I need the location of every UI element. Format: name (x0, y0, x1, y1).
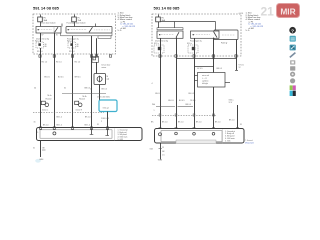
svg-text:G34: G34 (150, 148, 153, 150)
coil box 4 (187, 43, 198, 53)
svg-text:21: 21 (261, 4, 275, 18)
svg-text:GN 0.5: GN 0.5 (44, 77, 50, 79)
svg-text:MIR: MIR (280, 7, 295, 17)
help icon (289, 27, 296, 34)
svg-text:M 4a: M 4a (48, 95, 52, 97)
relay box E (214, 30, 238, 40)
wire labels mid (34, 62, 90, 90)
svg-text:?: ? (291, 28, 294, 34)
svg-text:BK 0.5: BK 0.5 (102, 88, 107, 90)
svg-text:C 701: C 701 (239, 13, 244, 15)
svg-text:BK 1.0: BK 1.0 (57, 117, 62, 119)
dashed separation line (33, 112, 104, 114)
svg-text:mirror L: mirror L (42, 109, 48, 111)
svg-text:31: 31 (97, 124, 99, 126)
pencil icon (290, 53, 296, 58)
color icon green/magenta (290, 85, 293, 90)
h link lines (177, 59, 239, 71)
svg-text:M 4b: M 4b (83, 96, 87, 98)
teal highlighted box (99, 100, 117, 112)
svg-text:BK 1.0: BK 1.0 (178, 122, 183, 124)
fuse F3 (156, 15, 161, 28)
legend text block (246, 13, 264, 33)
svg-text:591 14 08 085: 591 14 08 085 (154, 6, 181, 11)
svg-text:1: 1 (90, 88, 91, 90)
ground strip (37, 128, 143, 142)
svg-text:BN 0.5: BN 0.5 (186, 104, 192, 106)
fuse F2 (72, 15, 77, 27)
strip entry pins (39, 127, 108, 129)
svg-text:BN 0.5: BN 0.5 (217, 68, 223, 70)
relay box A (36, 27, 61, 34)
mirror motor box (94, 74, 106, 85)
svg-text:5. G35: 5. G35 (225, 140, 230, 142)
gray icon 2 (290, 66, 295, 70)
svg-text:BK 1.0: BK 1.0 (57, 125, 62, 127)
svg-text:WH 0.5: WH 0.5 (75, 77, 81, 79)
svg-text:BU 0.5: BU 0.5 (58, 77, 64, 79)
svg-text:4: 4 (152, 83, 153, 85)
svg-text:5. G: 5. G (118, 30, 122, 32)
heated mirror symbol 1 (41, 95, 51, 112)
dashed panel border (152, 14, 241, 56)
svg-text:d. M4: d. M4 (121, 28, 127, 30)
svg-text:30: 30 (56, 35, 58, 37)
svg-text:Fold rly: Fold rly (221, 41, 227, 44)
wire labels above strip (34, 117, 103, 127)
svg-text:GN 0.5: GN 0.5 (168, 100, 174, 102)
svg-text:1 BK 0.35 G34 x: 1 BK 0.35 G34 x (97, 96, 110, 98)
toolbar icon teal 2 (290, 45, 296, 51)
MIR red badge (277, 4, 300, 18)
connector box on mirror feed (92, 57, 99, 63)
wire from motor down (99, 85, 101, 101)
right panel vertical wires (161, 37, 238, 129)
svg-text:RD 1.0: RD 1.0 (42, 62, 48, 64)
svg-text:K13 a: K13 a (187, 43, 192, 45)
svg-text:BK 1.0: BK 1.0 (85, 125, 90, 127)
ground tail (42, 149, 46, 151)
svg-text:mirror sel: mirror sel (202, 74, 210, 77)
coil box 3 (154, 43, 164, 53)
right ground strip (155, 129, 245, 144)
toolbar icon grid teal (290, 36, 296, 42)
color icon cyan/black (290, 91, 293, 96)
svg-text:31: 31 (162, 147, 164, 149)
svg-text:Driver door module: Driver door module (40, 22, 55, 24)
relay top band (157, 28, 183, 30)
box top stubs and component name rows (62, 24, 96, 27)
link line between mirror units (62, 93, 106, 95)
svg-text:mirror R: mirror R (76, 109, 83, 111)
svg-text:BK 1.0: BK 1.0 (162, 122, 167, 124)
relay box C (157, 31, 183, 38)
svg-text:BK 1.0: BK 1.0 (215, 122, 220, 124)
svg-text:Heated: Heated (79, 98, 85, 101)
junction node (213, 58, 215, 60)
svg-text:591 14 08 085: 591 14 08 085 (33, 6, 60, 11)
svg-text:31: 31 (64, 88, 66, 90)
dashed panel border (33, 14, 116, 54)
svg-text:87: 87 (42, 35, 44, 37)
svg-text:31: 31 (34, 121, 36, 123)
fuse F1 (38, 15, 43, 27)
svg-text:K13 a: K13 a (67, 41, 72, 43)
svg-text:1: 1 (154, 110, 155, 112)
border pins right panel (159, 55, 237, 57)
relay box B (long) (66, 27, 112, 34)
svg-text:2.5: 2.5 (162, 155, 164, 157)
svg-text:BK 1.0: BK 1.0 (43, 125, 48, 127)
relay base band (61, 33, 113, 38)
svg-text:Passenger door module: Passenger door module (67, 22, 86, 24)
labels above switch box (197, 65, 244, 71)
svg-text:86: 86 (45, 46, 47, 48)
svg-text:Heated: Heated (46, 98, 52, 101)
svg-text:86: 86 (77, 46, 79, 48)
svg-text:31: 31 (33, 148, 35, 150)
svg-text:K12 a: K12 a (154, 43, 159, 45)
legend text block (118, 13, 136, 33)
top rail (161, 22, 216, 31)
gray circle 2 (290, 78, 295, 83)
svg-text:RD 1.0: RD 1.0 (69, 51, 75, 53)
labels above right strip (162, 99, 242, 126)
svg-text:BK 1.0: BK 1.0 (229, 119, 234, 121)
svg-text:RD 1.0: RD 1.0 (37, 51, 43, 53)
svg-text:5. G: 5. G (246, 30, 250, 32)
svg-text:BK 1.0: BK 1.0 (196, 122, 201, 124)
relay box D (191, 31, 220, 38)
svg-text:5. G35: 5. G35 (118, 139, 123, 141)
dashed mid line (152, 115, 216, 117)
svg-text:54: 54 (34, 88, 36, 90)
main vertical wires (41, 33, 97, 157)
gray icon 1 (290, 60, 295, 64)
coil box 2 (67, 41, 79, 54)
svg-text:left/right: left/right (202, 82, 209, 85)
svg-text:BU 0.5: BU 0.5 (179, 100, 185, 102)
svg-text:RD 1.0: RD 1.0 (56, 62, 62, 64)
switch assembly box (195, 73, 231, 88)
border pins (39, 55, 112, 57)
svg-text:K12 a: K12 a (35, 41, 40, 43)
svg-text:G34 gd: G34 gd (103, 108, 109, 110)
svg-text:Passenger rly: Passenger rly (190, 39, 202, 42)
svg-text:mirror: mirror (102, 67, 107, 69)
gray circle 1 (290, 72, 295, 77)
right ground tail (160, 144, 162, 160)
svg-text:RD 1.0: RD 1.0 (75, 62, 81, 64)
svg-text:GY 0.5: GY 0.5 (197, 68, 203, 70)
coil box 1 (35, 41, 47, 54)
svg-text:591-14 024: 591-14 024 (245, 143, 254, 145)
svg-text:BK 1.0: BK 1.0 (85, 117, 90, 119)
svg-text:12: 12 (239, 67, 241, 69)
svg-text:31: 31 (240, 124, 242, 126)
svg-text:GN 0.5: GN 0.5 (155, 93, 161, 95)
svg-text:d. M4: d. M4 (249, 28, 255, 30)
svg-text:2 BK 0.35: 2 BK 0.35 (101, 118, 109, 120)
svg-text:BU 0.5: BU 0.5 (189, 93, 195, 95)
wire below teal box (107, 112, 109, 129)
svg-text:2: 2 (101, 121, 102, 123)
heated mirror symbol 2 (75, 96, 87, 112)
svg-text:YE 0.5: YE 0.5 (190, 100, 195, 102)
wire labels right panel (151, 83, 195, 124)
